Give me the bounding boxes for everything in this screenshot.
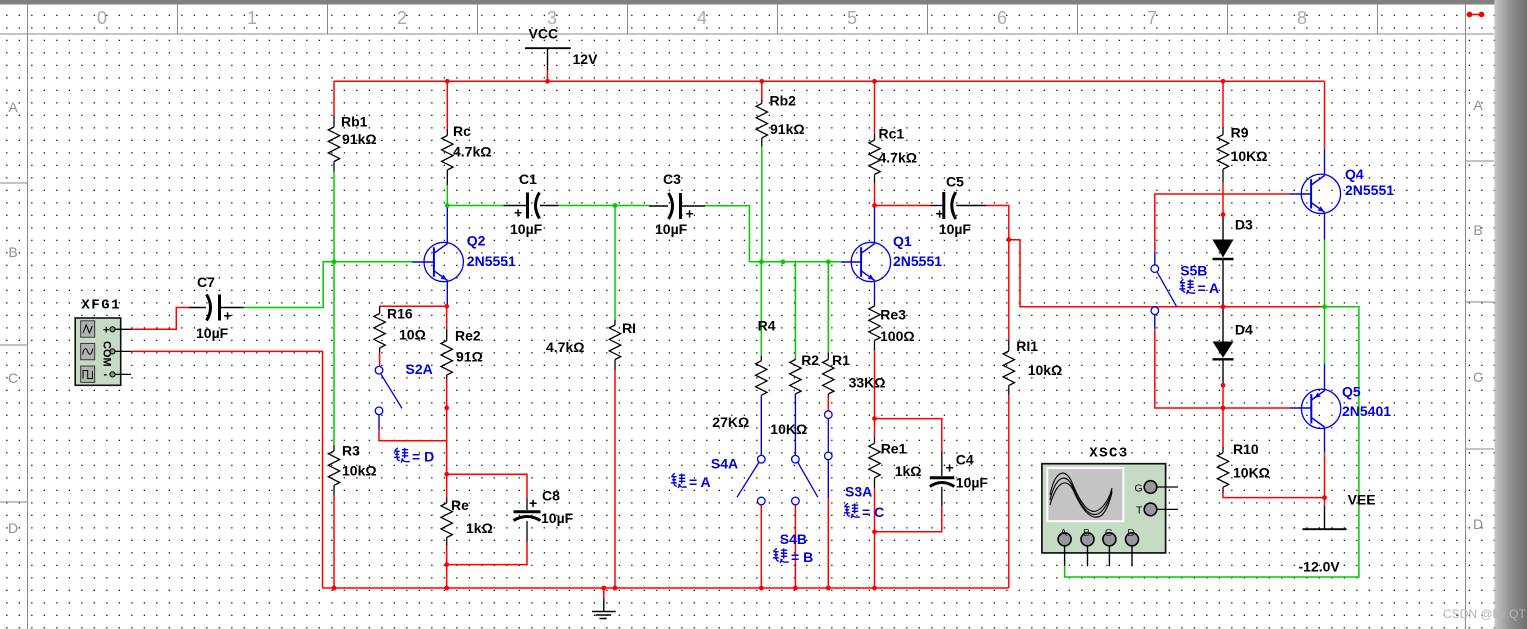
transistor Q5 (PNP) <box>1301 389 1340 428</box>
svg-text:4: 4 <box>697 8 707 28</box>
svg-text:B: B <box>8 244 17 260</box>
svg-text:S5B: S5B <box>1180 263 1207 279</box>
svg-text:R1: R1 <box>832 352 850 368</box>
S4B key label <box>773 548 813 565</box>
svg-text:CSDN @Mr.QT: CSDN @Mr.QT <box>1443 607 1527 621</box>
svg-text:VEE: VEE <box>1348 492 1376 508</box>
svg-text:-: - <box>104 369 108 381</box>
junction Q2 emitter node <box>444 304 449 309</box>
wire Q2 emitter node horizontals (red) <box>380 305 447 307</box>
ground <box>592 588 616 619</box>
svg-text:B: B <box>1083 527 1090 539</box>
svg-text:10KΩ: 10KΩ <box>1231 148 1268 164</box>
svg-text:10µF: 10µF <box>196 325 229 341</box>
junction Q1 collector node <box>872 203 877 208</box>
wire Re1 leads <box>874 419 876 438</box>
svg-text:Rc: Rc <box>453 123 471 139</box>
svg-text:COM: COM <box>101 341 113 367</box>
svg-text:Re: Re <box>451 497 469 513</box>
junction rail-RI <box>613 586 618 591</box>
svg-text:+: + <box>529 495 537 511</box>
wire Re3 bottom to Re1 node <box>874 350 876 419</box>
svg-text:Rb1: Rb1 <box>341 114 368 130</box>
wire R2 branch green drop <box>794 262 796 359</box>
svg-text:Re3: Re3 <box>880 307 906 323</box>
wire Re bottom to rail <box>446 545 448 588</box>
svg-text:10µF: 10µF <box>939 221 972 237</box>
resistor R1 <box>823 352 886 397</box>
wire Re1/C4 box (red) <box>875 419 942 451</box>
svg-text:1: 1 <box>247 8 257 28</box>
resistor Re1 <box>869 438 922 489</box>
junction output node <box>1322 304 1327 309</box>
svg-text:R16: R16 <box>387 306 413 322</box>
capacitor C1 <box>504 171 559 237</box>
svg-text:+: + <box>514 205 522 221</box>
junction Q2 collector node <box>445 203 450 208</box>
svg-text:= A: = A <box>1198 280 1220 296</box>
wire C7 to base node (green) <box>244 262 334 308</box>
svg-text:Rb2: Rb2 <box>770 93 797 109</box>
svg-text:C: C <box>8 370 18 386</box>
svg-text:XSC3: XSC3 <box>1089 445 1129 461</box>
wire Re1 node to rail <box>874 532 876 588</box>
svg-text:Rc1: Rc1 <box>879 126 905 142</box>
switch S2A <box>375 361 433 415</box>
svg-text:B: B <box>1473 222 1482 238</box>
wire R4 branch green drop <box>760 262 762 356</box>
svg-text:R4: R4 <box>758 318 776 334</box>
svg-text:D: D <box>1127 527 1135 539</box>
svg-text:2N5401: 2N5401 <box>1342 403 1391 419</box>
svg-text:10Ω: 10Ω <box>399 327 426 343</box>
junction rail-R3 <box>332 586 337 591</box>
wire Q2 collector node to C1 (green) <box>447 205 503 207</box>
junction rail-S4B <box>793 586 798 591</box>
capacitor C5 <box>930 174 986 238</box>
svg-text:5: 5 <box>847 8 857 28</box>
svg-text:Q5: Q5 <box>1342 384 1361 400</box>
S3A key label <box>844 503 884 520</box>
svg-text:7: 7 <box>1147 8 1157 28</box>
wire C3 right to Q1 base node row (green) <box>705 206 841 262</box>
wire Rb1 bottom green down to node A and R3 <box>333 172 335 445</box>
svg-text:0: 0 <box>97 8 107 28</box>
resistor Rc1 <box>869 126 917 184</box>
wire RI bottom red to rail <box>614 371 616 588</box>
wire Q5 collector down to VEE (blue then red) <box>1324 428 1326 453</box>
resistor R3 <box>328 443 376 496</box>
resistor R16 <box>374 306 426 367</box>
transistor Q1 <box>841 206 891 301</box>
svg-text:91Ω: 91Ω <box>456 349 483 365</box>
svg-text:= C: = C <box>862 504 884 520</box>
resistor R4 <box>712 318 775 431</box>
junction R9-D3 node <box>1221 212 1226 217</box>
wire R10 bottom to VEE node <box>1223 493 1325 498</box>
capacitor C8 <box>514 488 574 543</box>
svg-text:C8: C8 <box>542 488 560 504</box>
svg-text:= B: = B <box>791 549 813 565</box>
wire S2A bottom to Re2 chain (blue then red) <box>378 415 380 429</box>
wire node A to Q2 base <box>334 261 412 263</box>
svg-text:8: 8 <box>1297 8 1307 28</box>
svg-text:= A: = A <box>689 474 711 490</box>
svg-text:XFG1: XFG1 <box>81 297 121 313</box>
wire S5B top feed to Q4 base (blue stub + red) <box>1154 252 1156 265</box>
svg-text:2N5551: 2N5551 <box>893 253 942 269</box>
junction Re2-S2A node <box>444 406 449 411</box>
svg-text:10KΩ: 10KΩ <box>770 421 807 437</box>
switch S4B <box>780 455 818 547</box>
svg-text:S4B: S4B <box>780 531 807 547</box>
resistor Re3 <box>869 300 915 350</box>
switch S4A <box>711 455 765 504</box>
svg-text:91kΩ: 91kΩ <box>342 131 377 147</box>
svg-text:10kΩ: 10kΩ <box>342 463 377 479</box>
junction Re1-C4 bottom node <box>872 529 877 534</box>
junction D4 cathode node <box>1221 383 1226 388</box>
svg-text:10µF: 10µF <box>655 221 688 237</box>
S2A key label <box>394 448 434 465</box>
diode D4 <box>1213 307 1254 385</box>
resistor Rc <box>442 123 492 185</box>
junction rail-S4A <box>759 586 764 591</box>
wire output to scope A (green) <box>1065 307 1359 577</box>
junction C1-C3-RI node <box>613 203 618 208</box>
svg-text:1kΩ: 1kΩ <box>466 520 493 536</box>
junction rail-R1 <box>826 586 831 591</box>
svg-text:10kΩ: 10kΩ <box>1028 362 1063 378</box>
svg-text:C: C <box>1105 527 1113 539</box>
svg-text:D: D <box>1473 516 1483 532</box>
power VCC <box>525 26 598 82</box>
svg-text:2: 2 <box>397 8 407 28</box>
svg-text:S3A: S3A <box>845 484 872 500</box>
svg-text:C5: C5 <box>946 174 964 190</box>
junction rail-Re <box>444 586 449 591</box>
wire R1 branch green drop <box>827 262 829 353</box>
XSC3 oscilloscope <box>1042 445 1178 566</box>
svg-text:T: T <box>1136 505 1143 517</box>
S4A key label <box>671 473 711 490</box>
svg-text:Q2: Q2 <box>467 233 486 249</box>
svg-text:C1: C1 <box>519 171 537 187</box>
svg-text:+: + <box>936 206 944 222</box>
junction rail-ground <box>601 586 606 591</box>
wire Re / C8 box (red) <box>447 474 527 498</box>
svg-text:4.7kΩ: 4.7kΩ <box>453 144 491 160</box>
wire R1 to S3A (red) <box>827 397 829 411</box>
svg-text:+: + <box>224 308 232 324</box>
svg-text:10µF: 10µF <box>956 475 989 491</box>
svg-text:RI1: RI1 <box>1016 338 1038 354</box>
svg-text:4.7kΩ: 4.7kΩ <box>879 150 917 166</box>
wire R4 to S4A (blue) <box>760 396 762 456</box>
resistor R10 <box>1217 441 1270 493</box>
wire Rc bottom green to Q2 collector node <box>446 185 448 206</box>
wire D4 bottom to R10 (red) <box>1222 385 1224 447</box>
svg-text:C4: C4 <box>956 452 974 468</box>
switch S3A (closed) <box>825 411 873 500</box>
junction Re/C8 top node <box>444 472 449 477</box>
resistor RI1 <box>1003 338 1062 396</box>
wire output node down to Q5 emitter (green then blue) <box>1324 307 1326 364</box>
wire Re2 chain down (red) <box>446 379 448 474</box>
switch S5B <box>1151 263 1207 315</box>
svg-text:1kΩ: 1kΩ <box>895 463 922 479</box>
junction Q1 base row mid <box>781 259 786 264</box>
svg-text:R2: R2 <box>801 352 819 368</box>
svg-text:R9: R9 <box>1231 125 1249 141</box>
svg-text:S2A: S2A <box>406 361 433 377</box>
wire Q4 collector drop from rail <box>1324 81 1326 149</box>
wire R2 to S4B (blue) <box>794 394 796 455</box>
wire mid node down to RI (green) <box>614 206 616 320</box>
junction rail-Rc <box>445 79 450 84</box>
junction rail-Rc1 <box>872 79 877 84</box>
wire C5 right to RI1 node (red) <box>986 206 1009 240</box>
diode D3 <box>1213 215 1254 307</box>
capacitor C3 <box>649 171 705 237</box>
svg-text:+: + <box>103 325 109 337</box>
svg-text:R3: R3 <box>342 443 360 459</box>
svg-text:10µF: 10µF <box>510 221 543 237</box>
wire R9 bottom to D3 node <box>1222 182 1224 214</box>
svg-text:A: A <box>8 99 18 115</box>
junction Re/C8 bottom node <box>444 562 449 567</box>
wire R9 top red lead <box>1222 81 1224 126</box>
svg-text:S4A: S4A <box>711 456 738 472</box>
wire RI1 bottom to rail <box>1008 396 1010 588</box>
resistor Re2 <box>441 306 483 379</box>
resistor Rb2 <box>756 81 804 261</box>
junction Re3-Re1-C4 node <box>872 416 877 421</box>
svg-text:VCC: VCC <box>529 26 559 42</box>
svg-text:C: C <box>1473 369 1483 385</box>
wire Rb1 top red lead <box>333 81 335 116</box>
wire Q1 collector node to C5 (red) <box>875 205 931 207</box>
svg-text:Q1: Q1 <box>893 233 912 249</box>
svg-text:4.7kΩ: 4.7kΩ <box>546 339 584 355</box>
svg-text:27KΩ: 27KΩ <box>712 414 749 430</box>
resistor R9 <box>1217 125 1267 183</box>
junction Q1 base row R4 <box>759 259 764 264</box>
svg-text:Q4: Q4 <box>1345 166 1364 182</box>
wire C1 to C3 (green) <box>559 205 650 207</box>
svg-text:A: A <box>1060 527 1067 539</box>
node A base of Q2 <box>332 259 337 264</box>
capacitor C7 <box>189 274 244 341</box>
wire RI1 red lead top <box>1008 240 1010 340</box>
junction rail-Re1 <box>872 586 877 591</box>
svg-text:+: + <box>946 460 954 476</box>
wire Rc top red lead <box>446 81 448 129</box>
junction rail-R9 <box>1221 79 1226 84</box>
resistor Rb1 <box>328 114 376 172</box>
wire S3A bottom down (blue then red) to rail <box>827 460 829 499</box>
wire bottom ground rail (red) <box>323 587 1009 589</box>
wire XFG1 plus to C7 <box>131 308 189 330</box>
svg-text:C3: C3 <box>663 171 681 187</box>
wire S5B bottom to Q5 base row (blue stub + red) <box>1154 314 1156 329</box>
junction rail-VCC <box>545 79 550 84</box>
svg-text:D4: D4 <box>1235 322 1253 338</box>
power VEE <box>1299 492 1376 575</box>
junction rail-Rb2 <box>759 79 764 84</box>
junction C5-RI1 node <box>1006 237 1011 242</box>
svg-text:100Ω: 100Ω <box>880 328 915 344</box>
svg-text:+: + <box>686 206 694 222</box>
wire R3 bottom red to rail <box>333 496 335 588</box>
transistor Q2 <box>412 206 463 307</box>
svg-text:33KΩ: 33KΩ <box>849 375 886 391</box>
wire S4A bottom to rail (red) <box>760 505 762 588</box>
red marker top-right <box>1467 12 1484 17</box>
wire Q4 emitter down to output node (blue then green) <box>1324 213 1326 240</box>
svg-text:= D: = D <box>412 449 434 465</box>
wire S4B bottom to rail (red) <box>794 505 796 588</box>
svg-text:10KΩ: 10KΩ <box>1233 465 1270 481</box>
capacitor C4 <box>930 451 989 506</box>
svg-text:RI: RI <box>622 320 636 336</box>
wire Rc1 bottom red to Q1 collector node <box>874 183 876 206</box>
junction D4-R10-Q5 base node <box>1221 406 1226 411</box>
junction D3-D4 node <box>1221 304 1226 309</box>
svg-text:Re1: Re1 <box>881 441 907 457</box>
svg-text:D3: D3 <box>1235 217 1253 233</box>
wire Rc1 top red lead <box>874 81 876 134</box>
svg-text:G: G <box>1135 483 1143 495</box>
svg-text:6: 6 <box>997 8 1007 28</box>
svg-text:Re2: Re2 <box>455 328 481 344</box>
svg-text:12V: 12V <box>573 51 599 67</box>
svg-text:A: A <box>1473 97 1483 113</box>
svg-text:2N5551: 2N5551 <box>467 253 516 269</box>
resistor R2 <box>770 352 819 437</box>
resistor RI <box>546 320 636 371</box>
svg-text:C7: C7 <box>197 274 215 290</box>
wire XFG1 COM down to ground rail <box>131 351 323 588</box>
svg-text:2N5551: 2N5551 <box>1345 182 1394 198</box>
S5B key label <box>1179 279 1219 296</box>
svg-text:D: D <box>8 520 18 536</box>
transistor Q4 <box>1301 149 1340 214</box>
svg-text:-12.0V: -12.0V <box>1299 559 1341 575</box>
XFG1 function generator <box>75 297 131 385</box>
wire Re top red lead <box>446 474 448 498</box>
wire VCC top rail (red) <box>334 80 1325 82</box>
svg-text:10µF: 10µF <box>541 510 574 526</box>
svg-text:91kΩ: 91kΩ <box>770 121 805 137</box>
junction VEE node <box>1322 495 1327 500</box>
wire RI1 node to D3/D4 midpoint and output (red) <box>1009 240 1325 307</box>
junction Q1 base row R1 <box>826 259 831 264</box>
resistor Re <box>441 497 493 545</box>
svg-text:R10: R10 <box>1233 441 1259 457</box>
